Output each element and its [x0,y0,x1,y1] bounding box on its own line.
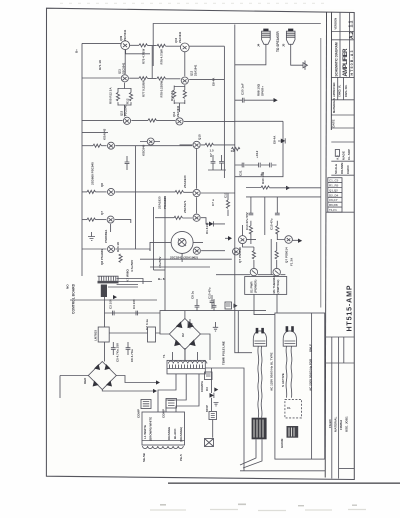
small part bottom box [205,439,214,447]
svg-text:E8 4A: E8 4A [212,77,216,86]
svg-text:Q15: Q15 [198,134,202,140]
wire: Q6 right [115,191,192,193]
wire: row 267 [150,266,210,268]
transistor Q22 [233,248,240,255]
svg-text:4.7u/50V: 4.7u/50V [130,260,134,272]
strip vertical x339 lower [338,337,340,479]
resistor R41 vertical [249,226,252,234]
capacitor C30 [242,98,244,103]
svg-text:R05 R12 3A: R05 R12 3A [109,87,113,104]
svg-text:R1..R5: R1..R5 [329,184,339,188]
transistor Q12 [181,77,188,84]
wire: c40 stubs [211,295,213,309]
svg-text:R6,R8: R6,R8 [329,203,338,207]
left bus vertical [81,43,83,276]
wire: R77 link [129,77,156,79]
svg-text:A.3: A.3 [336,155,340,160]
transistor Q10 [180,43,189,52]
wire: cn leads right [108,279,152,288]
svg-text:C30 1uF: C30 1uF [241,83,245,95]
bridge rectifier D2 [169,319,200,350]
wire: reg down [104,342,106,362]
wire: c9 stubs [196,299,198,311]
regulator U3 box [148,327,156,342]
svg-text:2SA1941: 2SA1941 [178,31,182,43]
svg-text:S ACTIVE: S ACTIVE [281,373,285,387]
wire: Q7 emitter [110,224,112,232]
wire: cord 1 [258,346,262,418]
svg-text:E8 4A: E8 4A [273,135,277,144]
arrow rail 188 [286,186,290,190]
bottom smudges [160,504,357,507]
strip divider y363 [326,362,355,364]
capacitor C8 [219,162,224,164]
resistor R91 stem2 [275,251,278,259]
svg-text:AC 125V 50/60 Hz UL TYPE: AC 125V 50/60 Hz UL TYPE [270,353,274,391]
svg-text:COMP: COMP [137,409,141,418]
svg-text:C6 4.7Ku: C6 4.7Ku [130,349,134,362]
svg-text:T1,F1: T1,F1 [329,208,337,212]
svg-text:C9 1u: C9 1u [191,291,195,299]
wire: b1 left [60,376,88,399]
svg-text:CL.SUP: CL.SUP [347,149,351,160]
wire: t1 right lead [205,368,244,471]
wire: t1 top leads [173,348,198,360]
svg-text:R24 1K: R24 1K [116,241,120,252]
ground arrow J5 [303,61,307,70]
wire: arrow stub [225,237,228,239]
transistor Q11 [121,75,128,82]
svg-text:CHKD: CHKD [346,165,350,174]
transistor Q13 [123,117,130,124]
capacitor C3 [113,311,115,316]
wire: rail A left [82,42,121,44]
svg-text:PSD669A: PSD669A [104,229,108,243]
wire: to Q12 [165,78,180,80]
resistor R76 [157,44,165,47]
wire: q16 links [196,148,198,213]
title block row divider y31.5 [332,31,355,33]
wire: t1 bottom leads [158,374,199,412]
transistor Q15 [193,141,200,148]
parts list table [328,178,342,213]
svg-text:B+: B+ [75,49,79,53]
resistor R33 vertical [226,200,229,208]
ac box inner divider [311,313,313,459]
svg-text:NO: NO [66,284,70,289]
wire: q17 left [155,217,192,219]
svg-text:T1: T1 [162,354,166,358]
svg-text:C? 0.1u: C? 0.1u [145,319,149,330]
svg-text:KSA643: KSA643 [103,128,107,140]
transistor Q16 [193,189,200,196]
svg-text:Q1,Q2: Q1,Q2 [329,188,338,192]
svg-text:C10 47u: C10 47u [208,287,212,299]
wire: d5 bar [278,138,285,143]
wire: row 249 [82,248,107,250]
relay dashed box [285,399,302,418]
capacitor C14 [249,213,254,215]
arrow right of d3 [214,387,218,391]
wire: rail 300 [70,299,157,301]
parts list rows [328,183,342,208]
wire: q14 down [223,46,225,178]
svg-text:HT515-AMP: HT515-AMP [347,285,354,331]
arrow q21 [298,239,302,243]
diode D5 on box edge [281,139,285,144]
svg-text:2SC5171: 2SC5171 [183,200,187,213]
svg-text:Q? PS9014: Q? PS9014 [285,247,289,263]
resistor R77 [139,77,147,80]
strip divider y212 [326,211,354,213]
wire: Q12-Q10 link [184,52,186,76]
regulator U2 box [98,327,109,342]
wire: link y270 [154,269,166,271]
transistor Q19 [193,247,200,254]
connector CN1 comb [98,276,119,283]
scan dotted line top margin [60,2,330,4]
svg-text:4.7 W/8Ω: 4.7 W/8Ω [126,269,130,282]
wire: plug1 tail [240,439,262,468]
wire: d2 top [184,311,186,319]
strip divider y337 [326,336,355,338]
bus vertical x234 [234,25,236,275]
switch S2 circle [273,268,280,275]
wire: Q10 collector to bus [189,45,224,47]
resistor R90 stem1 [252,251,255,259]
svg-text:R12: R12 [126,98,130,104]
ac plug 1 [253,328,266,346]
wire: Q7 right [115,220,131,223]
svg-text:Q14: Q14 [172,111,176,117]
wire: q4 leads [140,141,160,143]
wire: rail C mid [131,119,175,121]
transistor Q17 [193,214,200,221]
wire: switch to ac [254,294,277,314]
svg-text:D2..D4: D2..D4 [329,193,339,197]
wire: R75 link [130,44,157,46]
arrow zobel [274,98,278,102]
switch S1 circle [250,268,257,275]
wire: c6 stubs [127,342,129,355]
svg-text:600P: 600P [205,405,209,412]
svg-text:AMPLIFIER: AMPLIFIER [343,48,349,77]
svg-text:CL: CL [287,406,291,410]
capacitor C10 [212,306,217,308]
svg-text:(BROWN) WHITE: (BROWN) WHITE [149,417,153,441]
wire: r33 stubs [227,193,229,216]
wire: emitter pair links 2 [174,85,185,112]
svg-text:2SC5242 (2SA1962): 2SC5242 (2SA1962) [170,256,198,260]
diode D1 [209,221,213,226]
svg-text:C3 100: C3 100 [109,299,113,309]
scan edge line bottom [168,482,400,484]
wire: q20 leads [243,225,257,247]
svg-text:1.1: 1.1 [349,20,355,27]
comp block A [141,400,151,409]
resistor R22 [87,190,95,193]
wire: box 197 [246,196,321,198]
svg-text:2SD669 PSC945: 2SD669 PSC945 [91,162,95,185]
transformer T1 primary [142,412,185,449]
title block column divider x340 [340,12,350,77]
wire: d2 sides [160,313,210,360]
wire: d1 run [201,218,225,224]
svg-text:Q12: Q12 [190,70,194,76]
title block row divider y128 [331,127,354,129]
svg-text:2SC5041: 2SC5041 [123,29,127,41]
svg-text:MADE: MADE [342,151,346,160]
transistor Q14 [176,118,183,125]
wire: emitter pair links [118,83,131,117]
wire: row 146 b [101,145,106,147]
speaker connector J4 [262,29,271,45]
svg-text:1.5: 1.5 [210,149,215,153]
wire: row 220 b [95,219,106,221]
wire: q16 right [201,192,235,194]
strip vertical x344 segment [343,337,345,363]
wire: rail C left [82,120,123,122]
wire: switch rail [216,274,285,276]
wire: box top entry [235,120,283,122]
capacitor C6 [126,348,131,350]
capacitor C40 [210,301,215,303]
svg-text:GROM: GROM [280,438,284,448]
plug2 connector block [287,426,299,438]
wire: d2 bottom [184,350,186,361]
wire: grom link [212,420,214,438]
svg-text:47u/50V: 47u/50V [158,257,162,268]
svg-text:VERSION: VERSION [334,18,338,30]
svg-text:PE-5: PE-5 [179,454,183,461]
capacitor C31 [242,163,244,168]
grommet box left [209,412,217,420]
svg-text:RED: RED [83,377,87,384]
svg-text:FINISH: FINISH [339,420,343,430]
svg-text:2SA1941: 2SA1941 [176,105,180,117]
wire: q21 leads [277,239,298,242]
wire: c7 stubs [208,155,226,170]
faint scan mottle [47,9,354,478]
capacitor C12 [259,163,261,168]
svg-text:2SA1930: 2SA1930 [158,196,162,209]
svg-text:Q09: Q09 [119,35,123,41]
wire: cn down [104,297,106,327]
arrow earth [234,304,238,308]
svg-text:LM7815: LM7815 [94,330,98,341]
ground mark ac [213,322,218,331]
svg-text:Q10: Q10 [174,37,178,43]
switch label box [245,277,287,295]
wire: mid divider x271 [270,239,272,275]
svg-text:USE. JOB1: USE. JOB1 [344,416,348,432]
wire: bottom run [240,470,325,472]
svg-text:PSC5041: PSC5041 [123,104,127,116]
svg-text:R40 10Ω: R40 10Ω [261,171,265,184]
wire: c5 stubs [112,342,114,355]
transistor Q6 [108,188,115,195]
resistor R24 [119,254,122,262]
wire: b1 out down [102,390,153,392]
svg-text:TEMP. POLE LINE: TEMP. POLE LINE [222,341,226,365]
diode D3 [210,368,214,411]
resistor R75 [139,44,147,47]
small box earth [225,302,232,309]
svg-text:FILED: FILED [328,419,332,428]
svg-text:C31: C31 [239,170,243,176]
resistor R80 [148,119,156,122]
resistor R78 [157,77,165,80]
arrow rail 300 [113,295,117,299]
svg-text:C7: C7 [209,153,213,157]
svg-text:R71 1K: R71 1K [98,59,102,70]
svg-text:AC 230V 50/60 Hz FOR ___ ONLY: AC 230V 50/60 Hz FOR ___ ONLY [309,344,313,391]
svg-text:DRAWN: DRAWN [340,163,344,174]
title block outline [330,12,332,130]
svg-text:D3: D3 [205,387,209,391]
capacitor C4 [136,311,138,316]
wire: column link x135 [135,191,137,249]
wire: Q11-Q9 link [124,50,126,74]
wire: rail 313 [105,311,267,313]
svg-text:D2: D2 [181,333,185,337]
svg-text:SCHEMATIC DIAGRAM: SCHEMATIC DIAGRAM [335,42,339,76]
wire: row 259 [140,258,232,260]
wire: rail 188 [246,187,321,189]
title block row divider y77.4 [331,76,354,78]
svg-text:C5 4.7Ku 25V: C5 4.7Ku 25V [116,343,120,362]
svg-text:DWG. NO.: DWG. NO. [344,84,348,97]
wire: verticals right box [251,197,277,244]
svg-text:B+ 8: B+ 8 [158,277,165,281]
svg-text:SPKR+: SPKR+ [261,86,265,96]
svg-text:R77 0.22/5W: R77 0.22/5W [142,80,146,97]
svg-text:(ORANGE): (ORANGE) [179,427,183,442]
svg-text:COMPA: COMPA [200,380,204,392]
wire: mid vertical right box [264,197,266,235]
svg-text:HT50B-A3: HT50B-A3 [350,51,354,76]
connector pin block [101,285,107,298]
bottom short divider [339,468,355,470]
svg-text:BLACK: BLACK [173,428,177,439]
A3 small box [335,150,339,157]
svg-text:L1 WHITE: L1 WHITE [143,425,147,439]
wire: row 192 b [95,191,106,193]
svg-text:SCALE: SCALE [334,164,338,174]
svg-text:J5: J5 [282,43,286,47]
outer frame [46,8,354,479]
wire: q15 left [180,144,193,146]
wire: q19 right [201,250,225,252]
wire: Q14 right [184,120,235,122]
svg-text:A.2: A.2 [349,31,355,39]
wire: Q8 right [115,249,150,251]
capacitor C20 [125,162,130,164]
resistor R05 vertical [116,93,119,101]
capacitor C5 [111,348,116,350]
svg-text:MATERIAL: MATERIAL [333,417,337,432]
svg-text:R75 4.7/1W: R75 4.7/1W [142,48,146,64]
svg-text:Q? PS5548: Q? PS5548 [238,247,242,263]
wire: vertical x165 [164,196,166,311]
right rail x320 [320,38,322,308]
power transistor Q18 [171,231,193,253]
svg-text:R76 4.7/1W: R76 4.7/1W [160,49,164,65]
svg-text:2SA1930: 2SA1930 [183,175,187,188]
wire: cord 2 [286,346,292,398]
svg-text:Q6: Q6 [100,183,104,187]
wire: switch stems [254,242,277,268]
approvals divider columns [338,77,344,99]
svg-text:(SWITCH): (SWITCH) [276,280,280,294]
wire: row 220 [82,219,87,221]
svg-text:(POWER): (POWER) [254,280,258,293]
wire: mains feed [235,275,252,353]
ac input box [275,313,325,459]
transistor Q8 [108,246,115,253]
svg-text:C1..C5: C1..C5 [329,179,339,183]
transformer T1 secondary [167,360,207,374]
wire: row 192 [82,191,87,193]
svg-text:DATE: DATE [332,120,336,128]
earth component box [205,372,213,380]
ground arrow psu [188,319,192,329]
svg-text:C6,C7: C6,C7 [329,198,338,202]
svg-text:C? u: C? u [211,199,215,206]
strip vertical x332 lower [331,337,333,479]
resistor R14 vertical [183,90,186,98]
svg-text:C4 100: C4 100 [132,299,136,309]
transistor Q7 [107,216,114,223]
arrow b1 down [153,389,157,393]
svg-text:J4: J4 [257,43,261,47]
wire: J4 lead [235,44,266,65]
ground mark mid [88,232,95,241]
svg-text:C15 47u: C15 47u [270,218,274,230]
wire: rail B left [82,77,120,79]
transistor Q5 [108,142,115,149]
ground mark psu2 [214,403,219,406]
wire: zobel run [235,99,274,101]
wire: row 146 [82,145,93,147]
bridge rectifier B1 [88,362,116,390]
title strip left line [325,12,326,478]
svg-text:SE-5B: SE-5B [142,452,146,462]
svg-text:Q8 PSA949: Q8 PSA949 [100,249,104,265]
wire: J5 lead [291,44,303,65]
svg-text:F1 3A: F1 3A [290,257,294,266]
resistor R13 vertical [173,90,176,98]
capacitor C15 [275,213,280,215]
svg-text:Q13: Q13 [120,110,124,116]
wire: row 132 [82,131,108,133]
wire: c10 stubs [213,299,215,311]
wire: q18 leads [150,242,203,262]
date row box [331,142,354,175]
wire: Q9 emitter [126,50,150,54]
capacitor C7 [211,162,216,164]
inner box right edge [235,121,283,177]
plug1 connector block [252,418,267,440]
wire: b1 out right [116,376,156,383]
resistor R42 vertical [276,226,279,234]
speaker connector J5 [286,29,295,45]
svg-text:MATERIALS: MATERIALS [332,98,336,113]
scan smudges bottom [150,510,366,511]
wire: q15 right [201,144,235,146]
wire: reg out [109,332,160,334]
svg-text:2SA1941: 2SA1941 [193,64,197,76]
